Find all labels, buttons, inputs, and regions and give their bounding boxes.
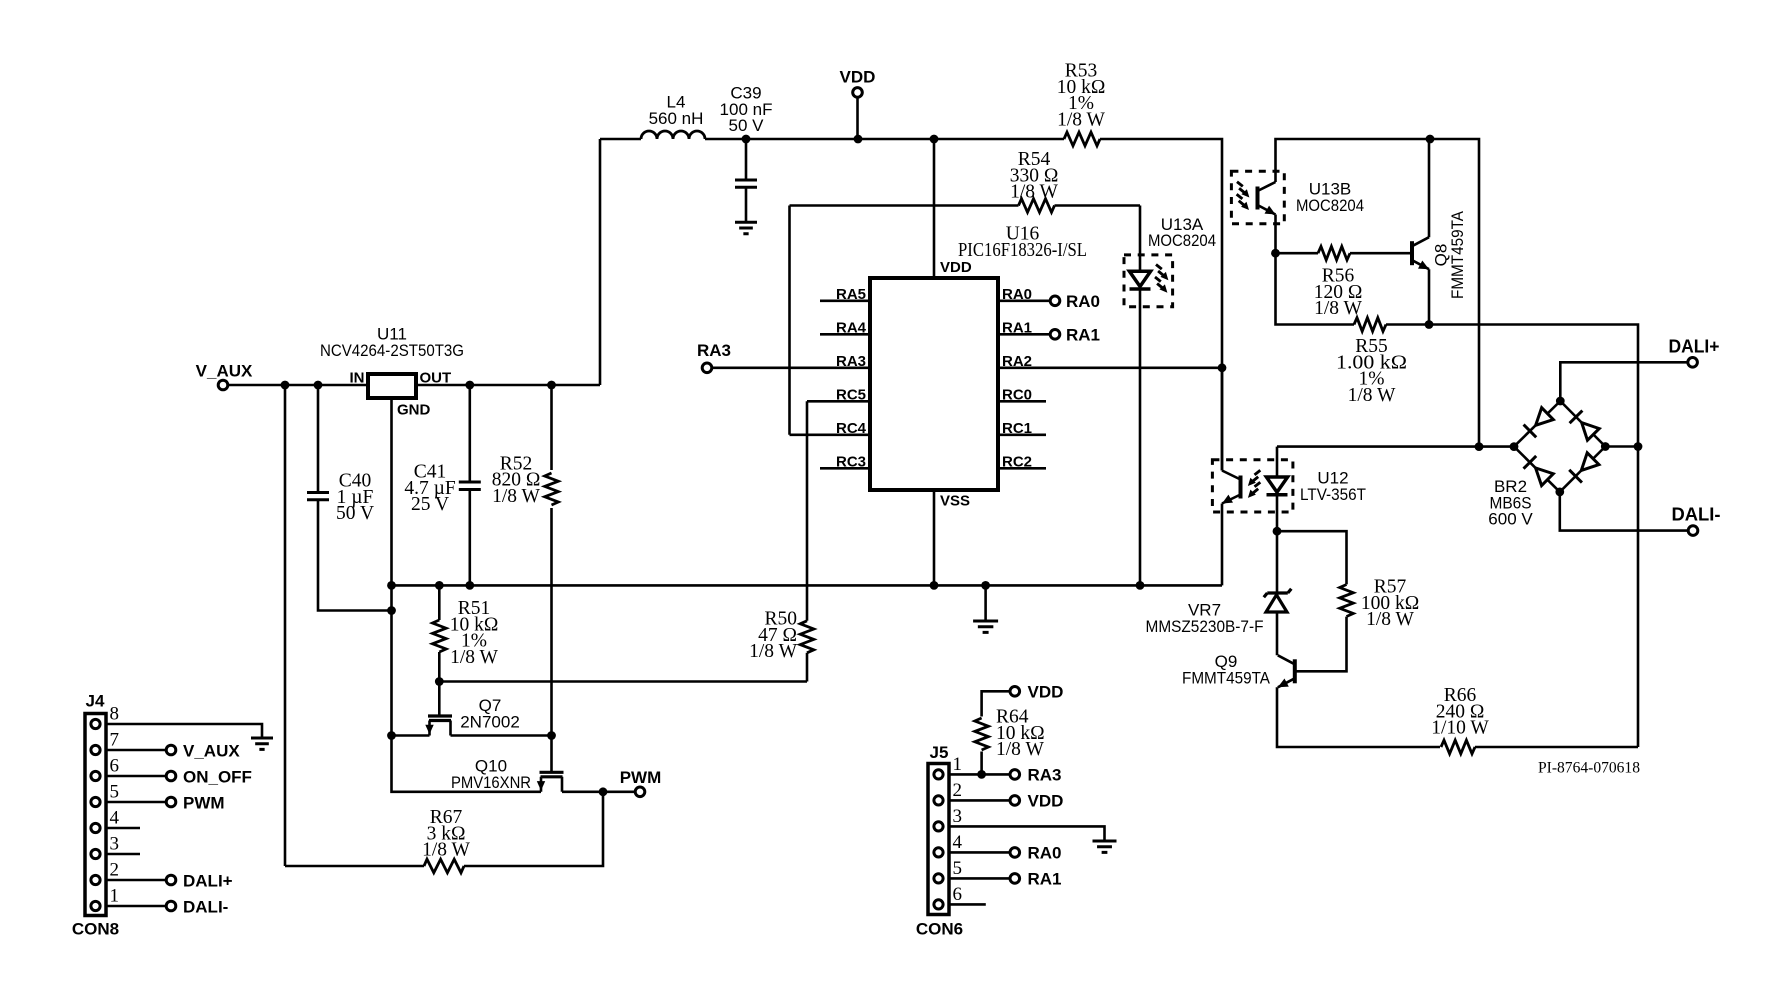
svg-text:3: 3 [953,806,963,827]
svg-text:NCV4264-2ST50T3G: NCV4264-2ST50T3G [320,341,464,360]
svg-text:1/8 W: 1/8 W [450,647,498,668]
svg-text:VDD: VDD [1028,791,1064,810]
svg-text:1/8 W: 1/8 W [1366,609,1414,630]
svg-text:50 V: 50 V [336,503,374,524]
svg-text:4: 4 [110,808,120,829]
svg-text:1: 1 [953,754,963,775]
svg-text:1/8 W: 1/8 W [1348,385,1396,406]
svg-text:RA3: RA3 [1028,765,1062,784]
svg-text:PWM: PWM [183,794,225,813]
svg-text:5: 5 [953,858,963,879]
svg-text:RA0: RA0 [1002,286,1032,303]
svg-text:1/8 W: 1/8 W [1314,298,1362,319]
svg-text:560 nH: 560 nH [649,109,704,128]
svg-text:7: 7 [110,730,120,751]
svg-text:FMMT459TA: FMMT459TA [1448,210,1467,299]
svg-text:OUT: OUT [420,370,452,387]
svg-text:1/8 W: 1/8 W [422,840,470,861]
svg-text:VDD: VDD [840,68,876,87]
svg-text:RA1: RA1 [1002,319,1032,336]
svg-text:50 V: 50 V [729,116,765,135]
svg-text:CON6: CON6 [916,920,963,939]
svg-text:4: 4 [953,832,963,853]
svg-text:DALI+: DALI+ [183,872,233,891]
svg-text:GND: GND [397,402,431,419]
svg-text:RA0: RA0 [1028,843,1062,862]
svg-text:RC3: RC3 [836,453,866,470]
svg-text:PMV16XNR: PMV16XNR [451,773,531,792]
svg-text:2: 2 [110,860,120,881]
svg-text:CON8: CON8 [72,920,119,939]
svg-text:6: 6 [953,884,963,905]
svg-text:V_AUX: V_AUX [183,742,240,761]
svg-text:RC2: RC2 [1002,453,1032,470]
svg-text:ON_OFF: ON_OFF [183,768,252,787]
svg-text:2: 2 [953,780,963,801]
svg-text:MMSZ5230B-7-F: MMSZ5230B-7-F [1146,617,1264,636]
svg-text:1/8 W: 1/8 W [492,486,540,507]
svg-text:RA4: RA4 [836,319,867,336]
svg-text:1/8 W: 1/8 W [749,641,797,662]
svg-text:RC4: RC4 [836,420,867,437]
svg-text:DALI-: DALI- [1672,505,1721,525]
svg-text:RA5: RA5 [836,286,866,303]
svg-text:VDD: VDD [940,259,972,276]
svg-text:8: 8 [110,704,120,725]
svg-text:RC1: RC1 [1002,420,1032,437]
svg-text:6: 6 [110,756,120,777]
svg-text:RC5: RC5 [836,386,866,403]
svg-text:1: 1 [110,886,120,907]
svg-text:RA1: RA1 [1066,325,1100,344]
svg-text:RA0: RA0 [1066,292,1100,311]
svg-text:1/8 W: 1/8 W [1010,182,1058,203]
svg-text:VSS: VSS [940,493,970,510]
svg-text:FMMT459TA: FMMT459TA [1182,668,1271,687]
svg-text:RA1: RA1 [1028,869,1062,888]
svg-text:2N7002: 2N7002 [460,712,520,731]
svg-text:PIC16F18326-I/SL: PIC16F18326-I/SL [958,240,1087,261]
svg-text:RA2: RA2 [1002,353,1032,370]
svg-text:25 V: 25 V [411,494,449,515]
svg-text:PWM: PWM [620,768,662,787]
svg-text:J4: J4 [86,692,105,711]
svg-text:DALI-: DALI- [183,898,228,917]
svg-text:RA3: RA3 [697,341,731,360]
svg-text:PI-8764-070618: PI-8764-070618 [1538,760,1640,777]
svg-text:1/10 W: 1/10 W [1431,718,1489,739]
svg-text:1/8 W: 1/8 W [1057,109,1105,130]
svg-text:V_AUX: V_AUX [196,362,253,381]
svg-text:MOC8204: MOC8204 [1148,231,1216,250]
svg-text:600 V: 600 V [1488,510,1533,529]
svg-text:IN: IN [350,370,365,387]
svg-text:J5: J5 [930,743,949,762]
svg-text:RC0: RC0 [1002,386,1032,403]
svg-text:LTV-356T: LTV-356T [1300,485,1366,504]
svg-text:DALI+: DALI+ [1669,337,1720,357]
svg-text:MOC8204: MOC8204 [1296,196,1364,215]
svg-text:3: 3 [110,834,120,855]
svg-text:VDD: VDD [1028,682,1064,701]
svg-text:1/8 W: 1/8 W [996,739,1044,760]
svg-text:5: 5 [110,782,120,803]
svg-text:RA3: RA3 [836,353,866,370]
